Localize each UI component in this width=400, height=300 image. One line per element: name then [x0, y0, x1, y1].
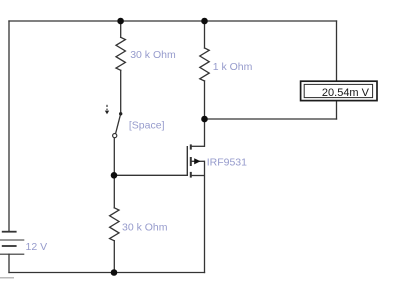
junction node A (gate/divider) — [111, 172, 118, 179]
Q1 channel dash body — [190, 157, 192, 166]
voltmeter U1 outer box — [301, 81, 377, 100]
svg-text:20.54m V: 20.54m V — [322, 87, 370, 99]
switch S1 pivot dot — [119, 112, 122, 115]
wire right drop from top rail to voltmeter — [336, 21, 338, 81]
junction node bottom rail — [111, 269, 118, 276]
V1 long plate 1 — [0, 239, 24, 241]
ground stub at lower left — [0, 277, 14, 279]
svg-text:12 V: 12 V — [26, 241, 48, 253]
wire battery bottom lead — [8, 254, 10, 272]
wire top rail — [9, 20, 337, 22]
svg-text:IRF9531: IRF9531 — [207, 157, 247, 169]
svg-text:30 k Ohm: 30 k Ohm — [122, 221, 168, 233]
wire top of R1 — [120, 21, 122, 37]
V1 long plate 2 — [0, 253, 24, 255]
Q1 channel dash drain — [190, 144, 192, 149]
wire left rail — [8, 21, 10, 231]
resistor R1 30 k Ohm (top) — [116, 37, 125, 70]
wire R1 to switch — [120, 70, 122, 113]
wire top rail to R3 — [204, 21, 206, 48]
wire gate lead — [114, 174, 187, 176]
wire node A to R2 — [113, 175, 115, 208]
wire drain lead — [204, 119, 206, 146]
Q1 channel dash source — [190, 172, 192, 178]
switch key press arrow icon — [106, 105, 108, 110]
junction node top-right — [201, 18, 208, 25]
svg-text:30 k Ohm: 30 k Ohm — [130, 49, 176, 61]
Q1 gate bar — [186, 146, 188, 176]
switch S1 blade — [116, 114, 121, 134]
junction node top-left — [117, 18, 124, 25]
Q1 body arrow — [194, 158, 200, 164]
junction node B (drain/1k/voltmeter) — [201, 116, 208, 123]
transistor Q1 IRF9531 (p-channel MOSFET) — [187, 144, 204, 177]
Q1 source stub — [191, 175, 205, 177]
wire R3 to node B — [204, 81, 206, 119]
resistor R2 30 k Ohm (bottom) — [110, 208, 119, 241]
Q1 drain stub — [191, 145, 205, 147]
wire node B to voltmeter column — [205, 118, 337, 120]
switch S1 contact circle — [113, 134, 117, 138]
wire bottom rail — [9, 272, 205, 274]
Q1 body stub — [191, 160, 205, 162]
resistor R3 1 k Ohm — [200, 48, 209, 81]
V1 short plate 2 — [2, 245, 17, 247]
wire source lead down to bottom rail — [204, 161, 206, 272]
wire switch to node A — [113, 138, 115, 176]
V1 short plate 1 — [2, 231, 17, 233]
svg-text:[Space]: [Space] — [129, 119, 165, 131]
wire R2 to bottom rail — [113, 241, 115, 273]
wire voltmeter to node B wire — [336, 101, 338, 119]
svg-text:1 k Ohm: 1 k Ohm — [213, 61, 253, 73]
battery V1 plates — [0, 232, 24, 255]
voltmeter U1 inner box — [304, 84, 372, 97]
